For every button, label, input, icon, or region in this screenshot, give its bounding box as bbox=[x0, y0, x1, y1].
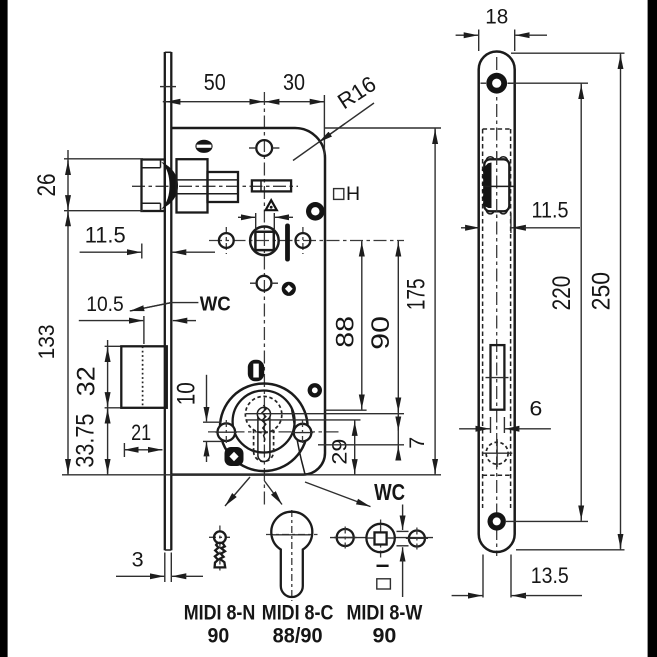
svg-text:10: 10 bbox=[173, 382, 201, 405]
svg-text:21: 21 bbox=[131, 420, 151, 445]
svg-text:33.75: 33.75 bbox=[72, 414, 100, 468]
svg-text:90: 90 bbox=[208, 624, 230, 648]
svg-text:10.5: 10.5 bbox=[86, 292, 124, 316]
svg-text:250: 250 bbox=[587, 272, 615, 311]
svg-text:220: 220 bbox=[548, 276, 576, 311]
svg-text:26: 26 bbox=[33, 174, 61, 197]
svg-text:88: 88 bbox=[332, 316, 359, 348]
svg-text:WC: WC bbox=[374, 479, 405, 505]
svg-text:MIDI 8-W: MIDI 8-W bbox=[346, 601, 422, 625]
svg-text:30: 30 bbox=[283, 69, 305, 95]
svg-text:MIDI 8-N: MIDI 8-N bbox=[184, 601, 256, 625]
svg-text:18: 18 bbox=[485, 6, 508, 29]
svg-text:175: 175 bbox=[404, 279, 431, 311]
svg-text:H: H bbox=[346, 183, 360, 205]
svg-text:90: 90 bbox=[372, 624, 396, 648]
svg-text:7: 7 bbox=[406, 437, 429, 449]
svg-text:WC: WC bbox=[200, 293, 231, 316]
svg-text:11.5: 11.5 bbox=[532, 198, 569, 223]
svg-text:133: 133 bbox=[34, 324, 59, 359]
svg-text:50: 50 bbox=[204, 69, 226, 95]
svg-text:11.5: 11.5 bbox=[85, 223, 126, 248]
svg-text:29: 29 bbox=[328, 439, 351, 465]
svg-text:32: 32 bbox=[72, 366, 100, 396]
svg-text:13.5: 13.5 bbox=[531, 563, 569, 588]
svg-text:90: 90 bbox=[368, 316, 395, 350]
svg-text:88/90: 88/90 bbox=[273, 624, 323, 648]
svg-text:6: 6 bbox=[529, 397, 542, 421]
svg-text:MIDI 8-C: MIDI 8-C bbox=[262, 601, 334, 625]
svg-text:3: 3 bbox=[132, 548, 144, 571]
